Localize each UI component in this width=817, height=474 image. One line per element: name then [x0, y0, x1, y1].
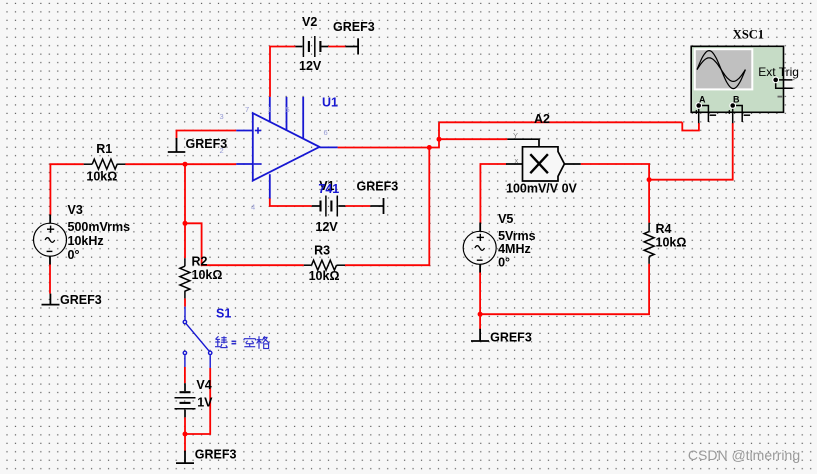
svg-text:x: x — [515, 156, 519, 165]
svg-text:12V: 12V — [315, 220, 338, 234]
svg-text:3: 3 — [220, 112, 224, 121]
svg-text:GREF3: GREF3 — [357, 180, 399, 194]
svg-text:500mVrms: 500mVrms — [68, 220, 131, 234]
svg-text:V3: V3 — [68, 203, 83, 217]
svg-text:B: B — [733, 95, 740, 105]
svg-text:6: 6 — [324, 128, 328, 137]
svg-text:100mV/V 0V: 100mV/V 0V — [506, 182, 578, 196]
svg-text:R1: R1 — [96, 142, 112, 156]
svg-text:7: 7 — [245, 105, 249, 114]
svg-text:0°: 0° — [498, 255, 510, 269]
svg-text:GREF3: GREF3 — [195, 448, 237, 462]
svg-text:GREF3: GREF3 — [60, 293, 102, 307]
svg-text:1V: 1V — [197, 396, 213, 410]
svg-text:2: 2 — [220, 146, 224, 155]
svg-text:10kΩ: 10kΩ — [192, 268, 223, 282]
svg-text:Y: Y — [513, 131, 518, 140]
svg-text:5Vrms: 5Vrms — [498, 229, 536, 243]
svg-text:V4: V4 — [196, 378, 211, 392]
svg-text:741: 741 — [318, 182, 339, 196]
svg-text:S1: S1 — [216, 306, 231, 320]
svg-text:GREF3: GREF3 — [333, 20, 375, 34]
svg-text:10kΩ: 10kΩ — [656, 235, 687, 249]
svg-text:U1: U1 — [322, 95, 338, 109]
svg-text:V5: V5 — [498, 212, 513, 226]
svg-text:0°: 0° — [68, 248, 80, 262]
svg-text:A: A — [699, 95, 706, 105]
svg-text:4: 4 — [251, 203, 255, 212]
svg-text:10kHz: 10kHz — [68, 234, 104, 248]
svg-text:R4: R4 — [656, 222, 672, 236]
svg-text:10kΩ: 10kΩ — [86, 169, 117, 183]
svg-text:XSC1: XSC1 — [733, 28, 764, 42]
svg-text:Ext Trig: Ext Trig — [758, 65, 799, 79]
svg-text:10kΩ: 10kΩ — [309, 269, 340, 283]
svg-text:A2: A2 — [534, 112, 550, 126]
svg-text:1: 1 — [268, 105, 272, 114]
svg-text:12V: 12V — [299, 59, 322, 73]
svg-text:GREF3: GREF3 — [490, 330, 532, 344]
svg-text:R3: R3 — [314, 244, 330, 258]
svg-text:R2: R2 — [192, 254, 208, 268]
svg-text:V2: V2 — [302, 15, 317, 29]
svg-text:4MHz: 4MHz — [498, 242, 531, 256]
svg-text:5: 5 — [286, 105, 290, 114]
svg-text:CSDN @timerring: CSDN @timerring — [688, 447, 800, 463]
